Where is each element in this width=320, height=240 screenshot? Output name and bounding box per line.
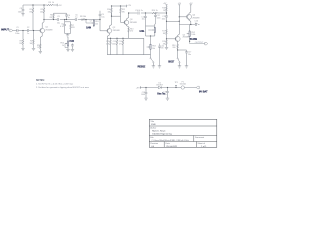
svg-text:100n: 100n [157, 17, 161, 19]
svg-text:4.7k: 4.7k [106, 43, 109, 45]
svg-text:1u: 1u [27, 33, 29, 35]
svg-text:10k: 10k [29, 43, 32, 45]
svg-text:10k: 10k [40, 11, 43, 13]
svg-text:1u: 1u [75, 17, 77, 19]
svg-text:2N5088: 2N5088 [130, 22, 138, 24]
svg-text:1M: 1M [29, 11, 32, 13]
svg-text:29-Jul-2021: 29-Jul-2021 [166, 146, 178, 148]
svg-text:1k: 1k [62, 45, 64, 47]
svg-text:22k: 22k [49, 17, 52, 19]
svg-text:PRESENCE: PRESENCE [138, 64, 146, 68]
svg-text:47k: 47k [163, 43, 166, 45]
svg-text:100n: 100n [18, 12, 22, 14]
svg-text:100n: 100n [162, 19, 166, 21]
svg-text:BOOST: BOOST [168, 60, 174, 64]
svg-text:FSB: FSB [151, 124, 156, 126]
svg-text:10u: 10u [57, 23, 60, 25]
svg-text:C8: C8 [20, 8, 22, 10]
svg-text:NOTES:: NOTES: [36, 80, 45, 82]
svg-text:10k: 10k [95, 24, 98, 26]
svg-text:R8 10k: R8 10k [80, 16, 86, 18]
svg-text:10u: 10u [188, 54, 191, 56]
svg-text:C2: C2 [27, 27, 29, 29]
svg-text:330: 330 [172, 47, 175, 49]
svg-text:10k: 10k [152, 48, 155, 50]
svg-text:LEVEL: LEVEL [140, 29, 145, 33]
svg-text:1 of 1: 1 of 1 [201, 146, 207, 148]
svg-text:47n: 47n [119, 43, 122, 45]
svg-text:2N5088: 2N5088 [192, 17, 200, 19]
svg-text:FUZZ: FUZZ [70, 39, 75, 43]
svg-text:C1: C1 [16, 27, 18, 29]
svg-text:1. Set R7 for Vc = 4.5V, Vbe =: 1. Set R7 for Vc = 4.5V, Vbe = 0.6V max [36, 82, 74, 85]
svg-text:GAIN: GAIN [86, 25, 91, 29]
svg-text:TP1: TP1 [174, 82, 177, 84]
svg-text:10u: 10u [164, 94, 167, 96]
svg-text:47k: 47k [122, 11, 125, 13]
svg-text:2N5088: 2N5088 [113, 30, 121, 32]
svg-text:4.7u: 4.7u [60, 26, 64, 28]
svg-text:470: 470 [130, 31, 133, 33]
svg-text:2N5088: 2N5088 [45, 29, 53, 31]
svg-text:10k: 10k [108, 11, 111, 13]
svg-text:C10 4.7u: C10 4.7u [135, 10, 143, 12]
svg-text:2N5088: 2N5088 [183, 37, 190, 39]
svg-text:9V BAT: 9V BAT [199, 90, 208, 93]
svg-text:+9V: +9V [136, 87, 140, 89]
svg-text:C3: C3 [57, 16, 59, 18]
svg-text:OUTPUT: OUTPUT [195, 42, 204, 44]
svg-text:Revision: Revision [150, 143, 158, 145]
svg-text:C7: C7 [90, 20, 92, 22]
svg-text:1n: 1n [68, 17, 70, 19]
svg-text:VOLUME: VOLUME [189, 37, 197, 41]
svg-text:Document: Document [195, 136, 205, 139]
svg-text:500mA: 500mA [180, 83, 187, 86]
svg-text:10u: 10u [142, 19, 145, 21]
svg-text:100u: 100u [141, 94, 145, 96]
svg-text:10u: 10u [195, 23, 198, 25]
svg-text:47n: 47n [161, 48, 164, 50]
svg-text:100k: 100k [191, 34, 195, 36]
svg-text:10u: 10u [101, 16, 104, 18]
svg-text:470: 470 [72, 27, 75, 29]
svg-text:INPUT: INPUT [1, 28, 9, 32]
svg-text:R9: R9 [49, 2, 51, 4]
svg-text:R14 1k: R14 1k [152, 10, 158, 12]
svg-text:1k: 1k [37, 47, 39, 49]
svg-text:Indelible Engineering: Indelible Engineering [152, 132, 172, 135]
svg-text:C:\Users\Mark\Music\FSB\.. FS: C:\Users\Mark\Music\FSB\.. FSB v4.0.Sch [151, 140, 188, 142]
svg-text:2. Set bias for symmetric clip: 2. Set bias for symmetric clipping when … [36, 86, 90, 89]
svg-text:Mark D. Rowe: Mark D. Rowe [152, 129, 166, 132]
svg-text:10k: 10k [163, 33, 166, 35]
svg-text:Sheet of: Sheet of [198, 142, 206, 145]
svg-text:100n: 100n [112, 43, 116, 45]
svg-text:1N5817: 1N5817 [156, 85, 163, 87]
svg-text:1k: 1k [52, 2, 54, 4]
svg-text:100n: 100n [15, 33, 19, 35]
svg-text:Author: Author [150, 126, 156, 129]
svg-text:1M: 1M [19, 43, 22, 45]
